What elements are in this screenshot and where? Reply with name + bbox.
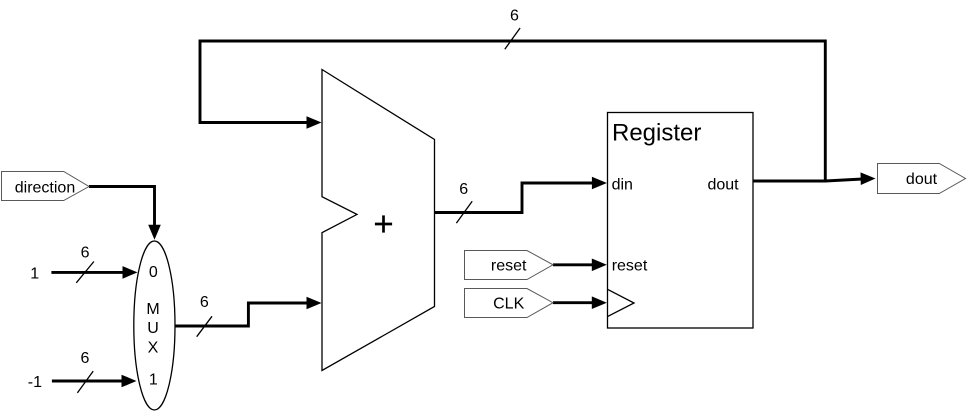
- svg-text:M: M: [146, 301, 159, 318]
- svg-text:6: 6: [459, 181, 468, 198]
- svg-text:1: 1: [149, 372, 158, 389]
- svg-text:0: 0: [149, 264, 158, 281]
- svg-text:X: X: [148, 340, 159, 357]
- svg-text:6: 6: [81, 244, 90, 261]
- svg-text:din: din: [612, 176, 633, 193]
- svg-text:dout: dout: [707, 176, 739, 193]
- svg-text:1: 1: [30, 266, 39, 283]
- svg-text:reset: reset: [491, 258, 527, 275]
- svg-text:direction: direction: [15, 179, 75, 196]
- svg-text:U: U: [147, 320, 159, 337]
- svg-text:6: 6: [510, 7, 519, 24]
- svg-text:6: 6: [80, 350, 89, 367]
- svg-text:CLK: CLK: [493, 296, 524, 313]
- svg-text:Register: Register: [612, 120, 701, 147]
- svg-text:dout: dout: [906, 171, 938, 188]
- svg-text:reset: reset: [612, 258, 648, 275]
- svg-text:6: 6: [200, 294, 209, 311]
- svg-text:-1: -1: [28, 374, 42, 391]
